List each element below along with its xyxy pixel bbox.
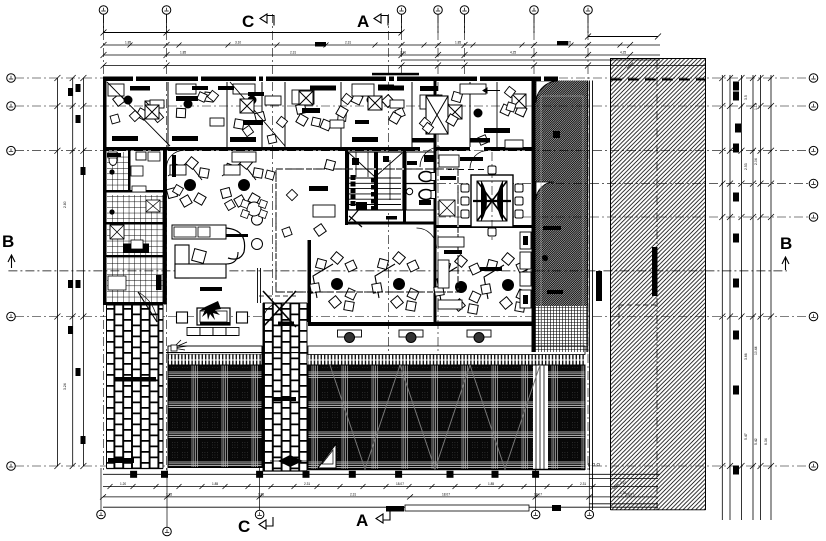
svg-text:6.34: 6.34 xyxy=(764,438,768,445)
svg-text:1.85: 1.85 xyxy=(455,41,461,45)
svg-text:3.5: 3.5 xyxy=(744,95,748,100)
svg-text:A: A xyxy=(356,511,368,530)
svg-text:A: A xyxy=(357,12,369,31)
svg-text:2.31: 2.31 xyxy=(304,482,310,486)
svg-text:4.25: 4.25 xyxy=(510,51,516,55)
svg-text:2.31: 2.31 xyxy=(400,51,406,55)
svg-text:2.31: 2.31 xyxy=(580,482,586,486)
svg-text:C: C xyxy=(242,12,254,31)
svg-text:B: B xyxy=(780,234,792,253)
svg-text:1.85: 1.85 xyxy=(212,482,218,486)
svg-text:5.47: 5.47 xyxy=(744,433,748,440)
svg-text:10.44: 10.44 xyxy=(754,346,758,355)
svg-text:2.53: 2.53 xyxy=(744,163,748,170)
svg-text:5.42: 5.42 xyxy=(754,438,758,445)
svg-text:4.25: 4.25 xyxy=(620,51,626,55)
svg-text:2.80: 2.80 xyxy=(63,201,67,208)
svg-text:B: B xyxy=(2,232,14,251)
svg-text:3.66: 3.66 xyxy=(744,353,748,360)
svg-text:2.31: 2.31 xyxy=(345,41,351,45)
svg-text:2.31: 2.31 xyxy=(290,51,296,55)
svg-text:1.85: 1.85 xyxy=(180,51,186,55)
svg-text:18.07: 18.07 xyxy=(534,493,542,497)
svg-text:3.24: 3.24 xyxy=(63,383,67,390)
svg-text:1.85: 1.85 xyxy=(488,482,494,486)
svg-text:1.14: 1.14 xyxy=(754,103,758,110)
svg-text:1.85: 1.85 xyxy=(166,493,172,497)
svg-text:2.04: 2.04 xyxy=(754,158,758,165)
svg-text:1.85: 1.85 xyxy=(565,41,571,45)
svg-text:L.O.O: L.O.O xyxy=(588,462,601,467)
svg-text:18.07: 18.07 xyxy=(396,482,404,486)
svg-text:C: C xyxy=(238,517,250,536)
svg-text:1.85: 1.85 xyxy=(125,41,131,45)
svg-text:3.10: 3.10 xyxy=(235,41,241,45)
svg-text:1.85: 1.85 xyxy=(258,493,264,497)
svg-text:2.31: 2.31 xyxy=(350,493,356,497)
svg-text:18.07: 18.07 xyxy=(442,493,450,497)
svg-text:1.20: 1.20 xyxy=(120,482,126,486)
